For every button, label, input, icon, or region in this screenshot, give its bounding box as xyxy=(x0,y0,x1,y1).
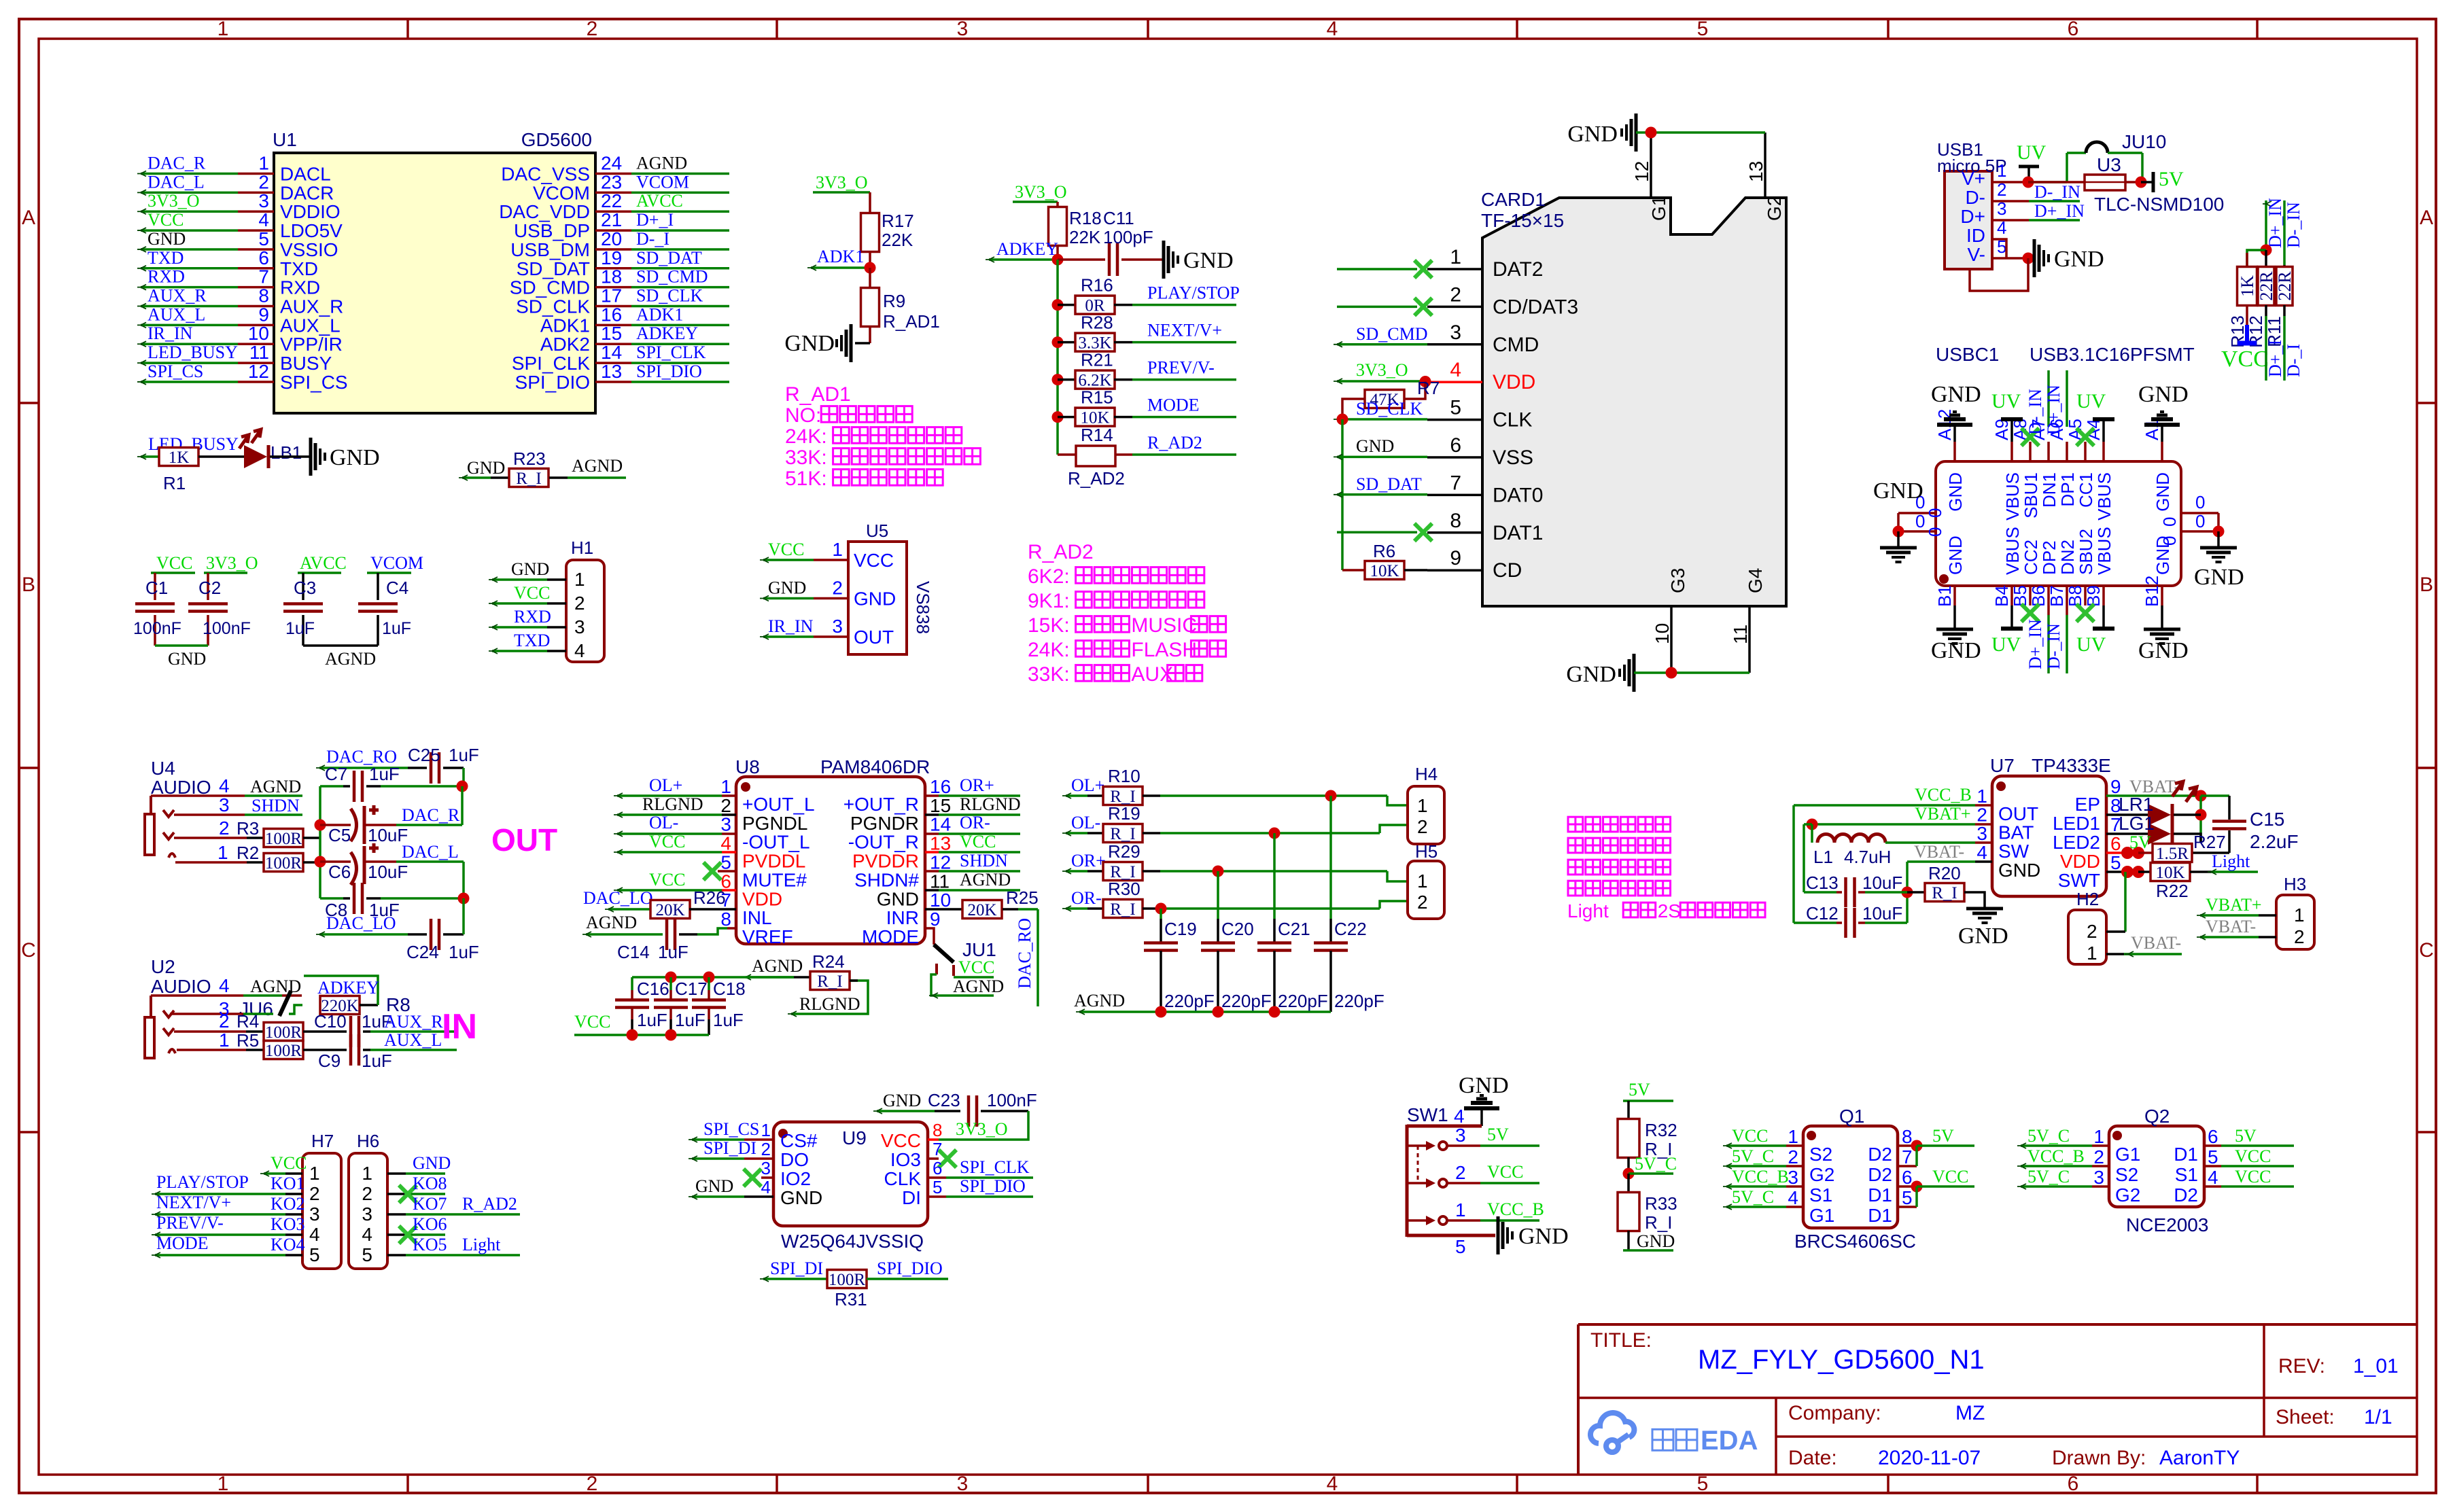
svg-text:C19: C19 xyxy=(1164,919,1197,939)
resistor R16 0R xyxy=(1052,275,1240,315)
svg-text:6: 6 xyxy=(1902,1167,1913,1188)
svg-text:D+_I: D+_I xyxy=(636,210,674,230)
svg-text:H4: H4 xyxy=(1415,764,1438,784)
ground GND xyxy=(311,438,380,476)
inductor L1 4.7uH xyxy=(1812,824,1992,867)
svg-text:1: 1 xyxy=(2087,943,2097,964)
svg-text:SD_DAT: SD_DAT xyxy=(636,248,702,268)
CARD1 pin 6 VSS xyxy=(1427,434,1533,469)
svg-text:4: 4 xyxy=(219,975,230,996)
resistor R13 1K xyxy=(2227,250,2266,348)
svg-text:AGND: AGND xyxy=(572,456,623,476)
svg-text:SHDN#: SHDN# xyxy=(854,869,919,890)
wire OR- to H5 pin2 xyxy=(1160,901,1408,909)
svg-text:D1: D1 xyxy=(2174,1144,2198,1165)
ground GND xyxy=(1567,113,1636,152)
svg-text:VCC_B: VCC_B xyxy=(1487,1199,1544,1219)
svg-text:9: 9 xyxy=(1450,547,1461,569)
svg-text:22K: 22K xyxy=(882,230,913,250)
svg-text:EDA: EDA xyxy=(1701,1426,1758,1456)
svg-text:4: 4 xyxy=(761,1177,771,1197)
svg-text:1: 1 xyxy=(1417,795,1428,816)
U8 pin 15 PGNDR xyxy=(850,795,951,834)
svg-text:R27: R27 xyxy=(2193,832,2226,852)
svg-text:VCC: VCC xyxy=(574,1012,610,1032)
USBC1 pin B7 DN2 xyxy=(2047,540,2078,607)
junction xyxy=(1623,1157,1635,1180)
svg-text:RXD: RXD xyxy=(147,267,185,287)
SW1 pin5 GND xyxy=(1407,1216,1569,1257)
svg-text:R_I: R_I xyxy=(1110,900,1136,919)
svg-text:VBAT-: VBAT- xyxy=(1914,842,1964,862)
net D-_IN A7 xyxy=(2025,370,2049,435)
net DAC_RO xyxy=(316,747,408,771)
svg-text:VCC: VCC xyxy=(958,957,994,977)
svg-text:R10: R10 xyxy=(1108,766,1141,786)
svg-text:OR-: OR- xyxy=(1071,888,1102,908)
svg-text:2: 2 xyxy=(761,1139,771,1159)
svg-text:OUT: OUT xyxy=(854,627,894,648)
svg-text:DAT1: DAT1 xyxy=(1493,522,1543,544)
svg-text:SW: SW xyxy=(1998,841,2030,862)
svg-text:D-_IN: D-_IN xyxy=(2034,182,2080,202)
title text xyxy=(1590,1329,1985,1375)
svg-text:C12: C12 xyxy=(1806,903,1839,924)
resistor R12 22R xyxy=(2246,250,2276,348)
svg-text:2: 2 xyxy=(309,1183,320,1204)
svg-text:3V3_O: 3V3_O xyxy=(147,191,200,211)
svg-text:KO4: KO4 xyxy=(271,1235,305,1254)
junction xyxy=(2261,245,2272,256)
svg-text:C1: C1 xyxy=(145,578,168,598)
svg-text:C10: C10 xyxy=(314,1011,347,1032)
capacitor C5 10uF polarized xyxy=(328,805,408,845)
svg-text:GND: GND xyxy=(168,649,206,669)
svg-text:3V3_O: 3V3_O xyxy=(1015,182,1067,202)
svg-text:2020-11-07: 2020-11-07 xyxy=(1878,1447,1981,1469)
svg-text:C11: C11 xyxy=(1103,208,1134,228)
svg-text:R_I: R_I xyxy=(1932,884,1957,902)
svg-text:DAC_VDD: DAC_VDD xyxy=(499,201,590,222)
LED LB1 xyxy=(239,429,302,468)
USB1 pin 1 V+ xyxy=(1962,160,2007,189)
svg-text:4: 4 xyxy=(1327,18,1338,40)
svg-text:2: 2 xyxy=(219,1010,230,1032)
U7 pin 7 LED2 xyxy=(2053,814,2121,853)
Q1 pin 8 D2 xyxy=(1868,1126,1912,1165)
svg-text:3: 3 xyxy=(219,794,230,815)
svg-text:33K:: 33K: xyxy=(1028,663,1070,686)
U7 pin 8 LED1 xyxy=(2053,795,2121,834)
svg-text:IO3: IO3 xyxy=(890,1149,921,1170)
svg-text:GND: GND xyxy=(1931,382,1981,407)
Q1 D1 tie xyxy=(1898,1181,1923,1208)
svg-text:GND: GND xyxy=(2054,247,2104,272)
CARD1 pin 3 CMD xyxy=(1427,321,1539,356)
Q2 pin 4 VCC xyxy=(2174,1167,2294,1206)
svg-text:C21: C21 xyxy=(1278,919,1310,939)
net Light xyxy=(2208,851,2258,875)
svg-text:AVCC: AVCC xyxy=(636,191,683,211)
svg-text:KO5: KO5 xyxy=(413,1235,447,1254)
svg-text:USB_DP: USB_DP xyxy=(514,220,590,241)
resistor R5 100R xyxy=(246,1041,347,1061)
power flag VCC xyxy=(151,553,195,573)
svg-text:SW1: SW1 xyxy=(1407,1104,1448,1125)
svg-text:15: 15 xyxy=(930,795,951,816)
svg-text:CD/DAT3: CD/DAT3 xyxy=(1493,296,1578,318)
capacitor C3 1uF xyxy=(283,573,323,646)
junction xyxy=(1807,819,1818,830)
svg-text:0: 0 xyxy=(1925,508,1945,518)
svg-text:100R: 100R xyxy=(829,1271,866,1289)
svg-text:C20: C20 xyxy=(1221,919,1254,939)
svg-text:13: 13 xyxy=(930,833,951,854)
Q1 D2 tie xyxy=(1898,1140,1923,1167)
svg-text:IR_IN: IR_IN xyxy=(147,323,193,343)
svg-text:100nF: 100nF xyxy=(133,619,181,638)
CARD1 pin 1 DAT2 xyxy=(1427,246,1543,281)
svg-text:U1: U1 xyxy=(273,129,297,150)
wire top rail xyxy=(632,976,794,979)
svg-text:VCC: VCC xyxy=(768,540,804,559)
wire AGND xyxy=(742,956,803,980)
annotation IN xyxy=(442,1007,477,1047)
junction xyxy=(1902,887,1913,898)
SW1 pin3 5V xyxy=(1448,1125,1539,1146)
svg-text:AUX_L: AUX_L xyxy=(384,1030,442,1050)
junction xyxy=(1420,376,1431,387)
svg-text:5V: 5V xyxy=(2129,832,2151,852)
svg-text:Light: Light xyxy=(462,1235,501,1254)
svg-text:5: 5 xyxy=(309,1244,320,1265)
svg-text:OUT: OUT xyxy=(491,822,557,858)
USBC1 pin B9 VBUS xyxy=(2083,527,2114,607)
ground GND xyxy=(784,324,851,362)
U7 pin 1 OUT xyxy=(1977,786,2038,824)
U4 pin3 SHDN xyxy=(174,794,302,815)
power flag 5V xyxy=(2141,168,2184,192)
svg-text:ADKEY: ADKEY xyxy=(317,978,379,998)
ground GND xyxy=(1958,909,2008,949)
svg-text:W25Q64JVSSIQ: W25Q64JVSSIQ xyxy=(781,1231,924,1252)
resistor R9 R_AD1 xyxy=(861,268,940,332)
U4 pin4 AGND xyxy=(151,775,302,796)
ground GND xyxy=(2194,531,2244,590)
wire OL+ to H4 pin1 xyxy=(1160,796,1408,805)
svg-text:OL-: OL- xyxy=(649,813,678,832)
svg-text:D-: D- xyxy=(1965,187,1985,208)
svg-text:R21: R21 xyxy=(1081,350,1113,370)
svg-text:C6: C6 xyxy=(328,862,351,882)
svg-text:DACL: DACL xyxy=(280,164,331,185)
ground GND xyxy=(1873,478,1923,562)
svg-text:C16: C16 xyxy=(637,979,669,999)
svg-text:S2: S2 xyxy=(2115,1164,2138,1185)
svg-text:C13: C13 xyxy=(1806,873,1839,893)
svg-text:GND: GND xyxy=(768,578,806,598)
CARD1 pin13 xyxy=(1745,133,1766,198)
connector USB1 body xyxy=(1937,139,2007,269)
svg-text:3: 3 xyxy=(957,18,969,40)
capacitor C7 1uF xyxy=(320,764,462,802)
svg-text:LR1: LR1 xyxy=(2119,794,2153,815)
H7 pin 1 VCC xyxy=(260,1153,320,1184)
CARD1 pin 9 CD xyxy=(1427,547,1522,582)
svg-text:G2: G2 xyxy=(2115,1184,2140,1206)
svg-text:5V_C: 5V_C xyxy=(1732,1146,1774,1166)
IC U9 body xyxy=(773,1122,928,1252)
svg-text:1uF: 1uF xyxy=(285,619,315,638)
power flag VCC q1 xyxy=(1917,1167,1974,1186)
capacitor C15 2.2uF xyxy=(2192,796,2299,853)
svg-text:OL-: OL- xyxy=(1071,813,1100,832)
svg-text:PGNDL: PGNDL xyxy=(742,813,807,834)
junction xyxy=(1269,828,1281,839)
Q2 pin 2 VCC_B xyxy=(2017,1146,2138,1185)
svg-text:13: 13 xyxy=(1745,161,1766,182)
U9 pin6 CLK xyxy=(884,1157,1033,1189)
transistor Q2 body xyxy=(2109,1106,2208,1235)
transistor Q1 body xyxy=(1794,1106,1916,1252)
power flag UV B4 xyxy=(1991,605,2023,656)
svg-text:Q2: Q2 xyxy=(2144,1106,2170,1127)
U8 pin 1 +OUT_L xyxy=(720,776,814,815)
junction xyxy=(665,972,677,983)
svg-text:VCC: VCC xyxy=(2221,347,2269,372)
CARD1 pin 8 DAT1 xyxy=(1427,510,1543,544)
svg-text:SD_CLK: SD_CLK xyxy=(516,296,590,317)
svg-text:1: 1 xyxy=(1788,1126,1798,1147)
svg-text:3V3_O: 3V3_O xyxy=(1356,360,1408,380)
U7 pin 3 SW xyxy=(1977,823,2029,862)
svg-text:100pF: 100pF xyxy=(1103,227,1153,247)
ground GND xyxy=(1164,241,1234,279)
power flag VCC xyxy=(574,1012,709,1035)
U1 pin 8 AUX_R xyxy=(137,285,343,317)
svg-text:H1: H1 xyxy=(571,538,593,558)
junction xyxy=(2125,177,2147,188)
svg-text:10: 10 xyxy=(1652,623,1673,644)
svg-text:R17: R17 xyxy=(882,211,914,231)
svg-text:11: 11 xyxy=(1730,625,1751,644)
Q1 pin 2 5V_C xyxy=(1723,1146,1834,1185)
svg-text:BRCS4606SC: BRCS4606SC xyxy=(1794,1231,1916,1252)
svg-text:1: 1 xyxy=(219,1030,230,1051)
svg-text:JU10: JU10 xyxy=(2122,131,2166,152)
U1 pin 1 DAC_R xyxy=(137,153,331,185)
svg-text:3: 3 xyxy=(832,616,843,637)
svg-text:GND: GND xyxy=(413,1153,451,1173)
U8 pin 12 SHDN# xyxy=(854,851,951,890)
ground GND xyxy=(2034,239,2104,277)
svg-text:VCOM: VCOM xyxy=(533,182,590,203)
svg-text:GD5600: GD5600 xyxy=(521,129,592,150)
svg-text:C15: C15 xyxy=(2250,809,2284,830)
no-connect pin1 xyxy=(1337,260,1432,278)
svg-text:RLGND: RLGND xyxy=(642,794,703,814)
svg-text:1: 1 xyxy=(720,776,731,797)
svg-text:R23: R23 xyxy=(513,449,546,469)
svg-text:3: 3 xyxy=(761,1158,771,1178)
svg-text:CS#: CS# xyxy=(780,1130,818,1151)
svg-text:5: 5 xyxy=(1697,18,1709,40)
svg-text:VCOM: VCOM xyxy=(370,553,423,573)
net OL+ xyxy=(614,775,736,798)
svg-text:GND: GND xyxy=(1873,478,1923,504)
svg-text:100R: 100R xyxy=(265,830,302,848)
resistor R25 20K xyxy=(925,887,1039,919)
svg-text:8: 8 xyxy=(258,285,269,306)
svg-text:LB1: LB1 xyxy=(271,442,302,463)
net ADKEY xyxy=(304,976,379,1005)
svg-text:MZ_FYLY_GD5600_N1: MZ_FYLY_GD5600_N1 xyxy=(1698,1345,1985,1375)
svg-text:SD_CMD: SD_CMD xyxy=(1356,324,1427,344)
svg-text:B12: B12 xyxy=(2142,576,2162,607)
USBC1 pin A6 DP1 xyxy=(2047,419,2078,506)
U1 pin 20 D-_I xyxy=(510,228,729,260)
svg-text:4.7uH: 4.7uH xyxy=(1844,847,1891,867)
net AGND xyxy=(929,974,1004,998)
power flag VCC xyxy=(2221,305,2269,372)
svg-text:DACR: DACR xyxy=(280,182,334,203)
U1 pin 19 SD_DAT xyxy=(517,247,729,279)
svg-text:5V: 5V xyxy=(2159,168,2184,190)
svg-text:33K:: 33K: xyxy=(785,446,827,469)
svg-text:SHDN: SHDN xyxy=(251,796,300,815)
svg-text:R7: R7 xyxy=(1417,378,1440,398)
svg-text:2: 2 xyxy=(2093,1146,2104,1167)
power flag VCC xyxy=(614,832,736,855)
svg-text:2: 2 xyxy=(1417,892,1428,913)
svg-text:100R: 100R xyxy=(265,1023,302,1042)
svg-text:S1: S1 xyxy=(1809,1184,1832,1206)
svg-text:3: 3 xyxy=(2093,1167,2104,1188)
svg-text:SD_DAT: SD_DAT xyxy=(517,258,590,279)
connector USBC1 body xyxy=(1936,344,2195,586)
svg-text:DAT2: DAT2 xyxy=(1493,258,1543,281)
wire AGND rail xyxy=(1074,991,1331,1015)
svg-text:VCC: VCC xyxy=(1487,1162,1523,1182)
svg-text:USB_DM: USB_DM xyxy=(510,239,590,260)
connector CARD1 body xyxy=(1481,189,1786,606)
svg-text:C2: C2 xyxy=(198,578,221,598)
resistor R6 10K xyxy=(1342,541,1427,580)
svg-text:R19: R19 xyxy=(1108,803,1141,824)
svg-text:R16: R16 xyxy=(1081,275,1113,296)
svg-text:UV: UV xyxy=(2076,390,2106,412)
svg-text:VCOM: VCOM xyxy=(636,172,689,192)
IC U1 GD5600 body xyxy=(273,129,595,413)
svg-text:C17: C17 xyxy=(675,979,708,999)
U1 pin 17 SD_CLK xyxy=(516,285,729,317)
svg-text:SPI_DI: SPI_DI xyxy=(770,1259,823,1278)
svg-text:DAC_L: DAC_L xyxy=(402,842,459,862)
svg-text:SWT: SWT xyxy=(2058,870,2100,891)
U1 pin 2 DAC_L xyxy=(137,171,334,203)
no-connect B8 xyxy=(2076,604,2094,622)
U8 pin 14 -OUT_R xyxy=(848,814,951,853)
svg-text:GND: GND xyxy=(1183,248,1234,273)
H2 pin2 wire xyxy=(2106,930,2125,933)
svg-text:AGND: AGND xyxy=(325,649,376,669)
U1 pin 10 IR_IN xyxy=(137,323,343,355)
no-connect B5 xyxy=(2021,604,2039,622)
svg-text:PREV/V-: PREV/V- xyxy=(1147,358,1215,378)
resistor R22 10K xyxy=(2106,863,2211,902)
svg-text:0: 0 xyxy=(2195,511,2205,531)
wire D+_IN vertical xyxy=(2263,198,2285,250)
svg-text:C9: C9 xyxy=(318,1051,341,1071)
junction xyxy=(1155,1006,1167,1018)
svg-text:AUDIO: AUDIO xyxy=(151,976,211,997)
svg-text:11: 11 xyxy=(930,871,950,892)
power flag VBAT+ xyxy=(1812,804,1992,824)
U1 pin 16 ADK1 xyxy=(540,304,729,336)
net DAC_R xyxy=(320,786,462,825)
svg-text:VCC: VCC xyxy=(147,210,184,230)
resistor R1 1K xyxy=(159,448,198,494)
svg-text:TXD: TXD xyxy=(514,631,550,650)
power flag UV xyxy=(2017,141,2047,182)
svg-text:OR-: OR- xyxy=(960,813,990,832)
ground GND B1 xyxy=(1931,605,1981,663)
SW1 pin1 VCC_B xyxy=(1448,1199,1544,1220)
svg-text:1uF: 1uF xyxy=(658,942,689,962)
svg-text:TXD: TXD xyxy=(147,248,184,268)
svg-text:R3: R3 xyxy=(237,818,259,839)
svg-text:G4: G4 xyxy=(1745,568,1766,593)
resistor R33 R_I xyxy=(1618,1174,1677,1233)
svg-text:3: 3 xyxy=(574,616,585,637)
U9 pin8 VCC xyxy=(881,1111,1028,1151)
net AGND xyxy=(568,456,626,478)
wire xyxy=(855,327,870,343)
svg-text:5: 5 xyxy=(258,228,269,249)
U1 pin 6 TXD xyxy=(137,247,318,279)
svg-text:10K: 10K xyxy=(1370,562,1399,580)
svg-text:OR+: OR+ xyxy=(960,775,994,795)
U4 pin1 R2 xyxy=(175,842,259,863)
svg-text:6: 6 xyxy=(2208,1126,2218,1147)
svg-text:2: 2 xyxy=(362,1183,372,1204)
net ADK1 xyxy=(807,247,870,270)
net D-_IN B7 xyxy=(2044,605,2067,673)
Q1 pin 5 D1 xyxy=(1868,1187,1912,1226)
junction xyxy=(1269,1006,1281,1018)
svg-text:KO7: KO7 xyxy=(413,1194,447,1214)
svg-text:R_AD2: R_AD2 xyxy=(1068,468,1125,489)
svg-text:5: 5 xyxy=(720,851,731,873)
svg-text:DI: DI xyxy=(902,1187,921,1208)
svg-text:R22: R22 xyxy=(2156,881,2189,901)
svg-text:B: B xyxy=(2420,574,2433,596)
resistor R28 3.3K xyxy=(1052,313,1237,353)
wire xyxy=(1970,258,2028,291)
svg-text:VCC: VCC xyxy=(649,832,685,851)
svg-text:VSS: VSS xyxy=(1493,446,1533,469)
svg-text:VBAT-: VBAT- xyxy=(2131,933,2181,953)
svg-text:DP1: DP1 xyxy=(2057,472,2078,507)
svg-text:3V3_O: 3V3_O xyxy=(956,1119,1008,1139)
svg-text:2: 2 xyxy=(1450,283,1461,306)
power flag 3V3_O xyxy=(204,553,258,573)
svg-text:SPI_DI: SPI_DI xyxy=(703,1138,756,1158)
svg-text:D+_IN: D+_IN xyxy=(2034,201,2085,221)
capacitor C10 1uF xyxy=(314,1011,457,1047)
svg-text:R5: R5 xyxy=(237,1030,259,1051)
svg-text:AGND: AGND xyxy=(752,956,803,976)
